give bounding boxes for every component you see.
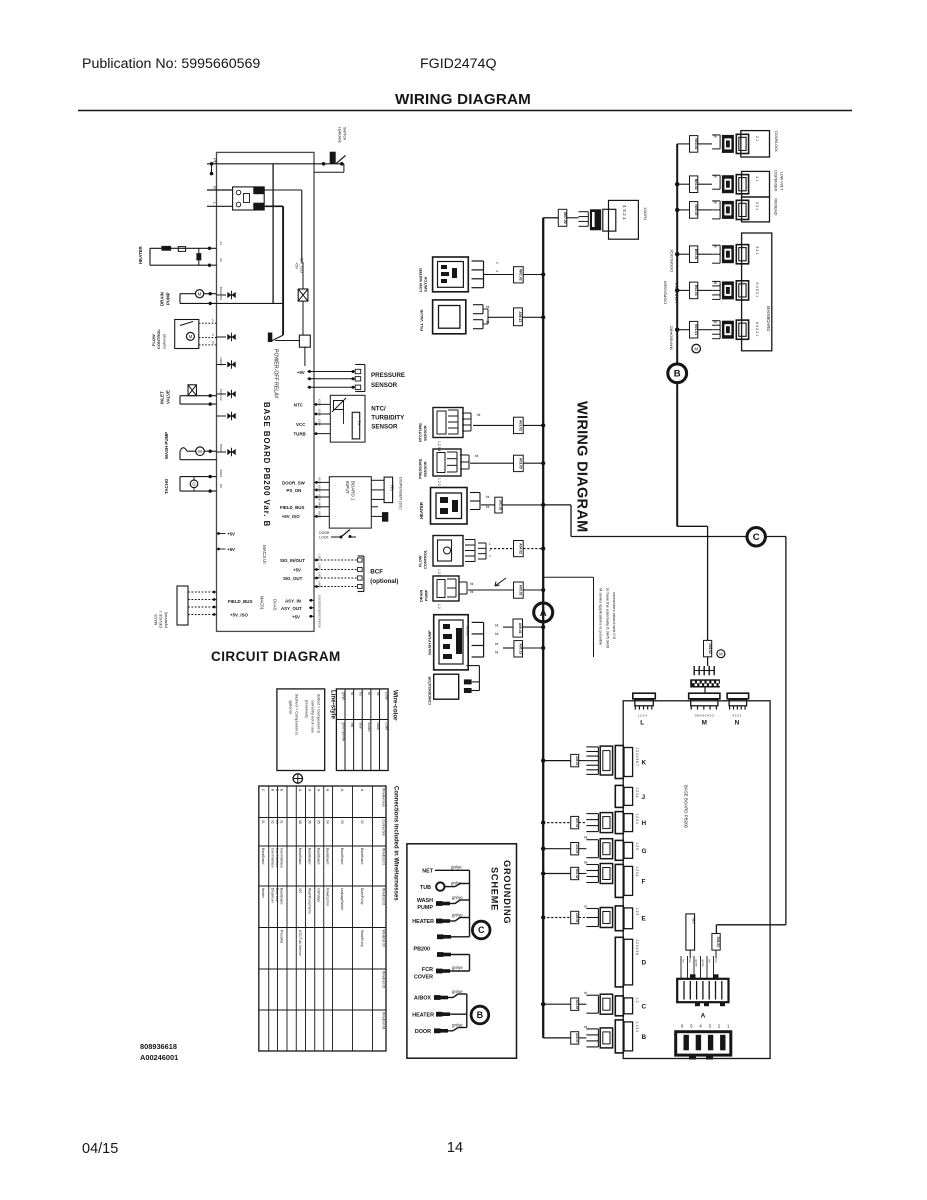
svg-text:H3/06: H3/06 xyxy=(318,494,322,501)
svg-text:HEATER: HEATER xyxy=(412,1013,434,1019)
svg-text:04/15: 04/15 xyxy=(82,1141,118,1157)
svg-text:Wire-color: Wire-color xyxy=(392,690,399,721)
svg-text:bk: bk xyxy=(486,305,490,309)
svg-text:DOOR: DOOR xyxy=(415,1029,431,1035)
svg-text:HEATER: HEATER xyxy=(138,245,143,264)
svg-text:(optional): (optional) xyxy=(163,334,167,349)
svg-text:N03.02: N03.02 xyxy=(694,138,698,149)
svg-text:3: 3 xyxy=(212,340,214,344)
svg-text:MAC51: MAC51 xyxy=(260,596,265,611)
svg-text:K1/0X: K1/0X xyxy=(318,409,322,416)
svg-text:CONTROL: CONTROL xyxy=(423,549,428,569)
svg-text:E: E xyxy=(642,916,647,923)
svg-text:SENSOR: SENSOR xyxy=(424,425,428,441)
svg-text:0 8 0 6 0 4 0 2: 0 8 0 6 0 4 0 2 xyxy=(695,714,715,718)
svg-text:COVER: COVER xyxy=(414,975,433,981)
svg-text:A05.02: A05.02 xyxy=(519,585,523,596)
svg-text:W07.02: W07.02 xyxy=(563,212,567,224)
svg-text:INPUT: INPUT xyxy=(345,481,350,494)
svg-text:F: F xyxy=(642,878,646,885)
svg-text:UserInterface: UserInterface xyxy=(270,848,274,868)
svg-text:H: H xyxy=(642,820,647,827)
svg-text:+5V_ISO: +5V_ISO xyxy=(282,514,301,519)
svg-text:PE: PE xyxy=(213,158,218,164)
svg-text:G: G xyxy=(192,482,195,487)
svg-text:H1/02: H1/02 xyxy=(318,477,322,484)
svg-text:DISPENSER (DC): DISPENSER (DC) xyxy=(399,477,404,510)
svg-text:SIG_IN/OUT: SIG_IN/OUT xyxy=(280,558,305,563)
svg-text:gn/ye: gn/ye xyxy=(701,960,705,967)
svg-text:connectors raised next 0.5: connectors raised next 0.5 xyxy=(612,592,617,640)
svg-text:A05.13: A05.13 xyxy=(518,643,522,654)
svg-text:PUMP: PUMP xyxy=(417,905,433,911)
svg-text:B: B xyxy=(477,1010,484,1020)
svg-text:INLET: INLET xyxy=(160,391,165,404)
svg-text:B01.01: B01.01 xyxy=(694,324,698,335)
svg-text:WireHarness: WireHarness xyxy=(382,788,386,807)
svg-text:D01.02: D01.02 xyxy=(708,643,712,654)
svg-text:WIRING DIAGRAM: WIRING DIAGRAM xyxy=(395,91,531,108)
svg-text:MAC3 UI: MAC3 UI xyxy=(262,545,267,564)
svg-text:MAINBOARD: MAINBOARD xyxy=(669,326,674,350)
svg-text:VALVE: VALVE xyxy=(166,390,171,404)
svg-text:A/BOX: A/BOX xyxy=(414,996,431,1002)
svg-text:BaseBoard: BaseBoard xyxy=(298,848,302,864)
svg-text:B02.01: B02.01 xyxy=(694,285,698,296)
svg-text:K1/02: K1/02 xyxy=(318,399,322,406)
svg-text:Heater: Heater xyxy=(261,888,265,899)
svg-text:D01.03: D01.03 xyxy=(716,937,720,948)
svg-text:WireEnd 02: WireEnd 02 xyxy=(382,888,386,905)
svg-text:WireEnd 06: WireEnd 06 xyxy=(382,1012,386,1029)
svg-text:bu: bu xyxy=(359,692,363,696)
svg-text:PUMP: PUMP xyxy=(166,292,171,305)
svg-text:+5V_ISO: +5V_ISO xyxy=(230,613,249,618)
svg-text:M: M xyxy=(694,346,698,351)
svg-text:1 2 3 4: 1 2 3 4 xyxy=(635,787,639,797)
svg-text:ASY_IN: ASY_IN xyxy=(285,598,301,603)
svg-text:BaseBoard: BaseBoard xyxy=(360,848,364,864)
svg-text:CIRCUIT DIAGRAM: CIRCUIT DIAGRAM xyxy=(211,649,341,664)
svg-text:A: A xyxy=(540,608,547,619)
svg-text:1 2 3 4 5 6: 1 2 3 4 5 6 xyxy=(635,939,639,955)
svg-text:Dispenser: Dispenser xyxy=(270,888,274,904)
svg-text:A02.01: A02.01 xyxy=(575,1033,579,1043)
svg-text:L2/04: L2/04 xyxy=(318,563,322,570)
svg-text:BaseBoard: BaseBoard xyxy=(261,848,265,864)
svg-text:NTC/TURB.: NTC/TURB. xyxy=(419,422,423,442)
svg-text:1 2 3 4: 1 2 3 4 xyxy=(638,714,648,718)
svg-text:DrainPump: DrainPump xyxy=(360,888,364,905)
svg-text:rd: rd xyxy=(584,905,587,909)
svg-text:bk: bk xyxy=(475,454,479,458)
svg-text:blue: blue xyxy=(359,723,363,729)
svg-text:A03.02: A03.02 xyxy=(519,420,523,431)
svg-text:UserInterface: UserInterface xyxy=(275,848,279,868)
svg-text:F1/03: F1/03 xyxy=(219,389,223,397)
svg-text:14: 14 xyxy=(447,1140,463,1156)
svg-text:LOW VOLT: LOW VOLT xyxy=(779,172,783,191)
svg-text:DRAIN: DRAIN xyxy=(160,292,165,306)
svg-text:Color: Color xyxy=(384,723,388,732)
svg-text:BaseBoard: BaseBoard xyxy=(317,848,321,864)
svg-text:red: red xyxy=(350,723,354,728)
svg-text:bk: bk xyxy=(477,413,481,417)
svg-text:MAINBOARD: MAINBOARD xyxy=(766,306,771,331)
svg-text:D2/03: D2/03 xyxy=(219,358,223,366)
svg-text:bk: bk xyxy=(495,651,499,655)
svg-text:bu: bu xyxy=(714,960,718,964)
svg-text:SENSOR: SENSOR xyxy=(371,382,398,389)
svg-text:2 1: 2 1 xyxy=(755,136,759,141)
svg-text:bk: bk xyxy=(470,590,474,594)
svg-text:PUMP: PUMP xyxy=(424,589,429,601)
svg-text:1 2: 1 2 xyxy=(635,998,639,1003)
svg-text:M: M xyxy=(702,720,707,727)
svg-text:N04.02: N04.02 xyxy=(694,179,698,190)
svg-text:+5V: +5V xyxy=(295,262,299,269)
svg-text:A04.02: A04.02 xyxy=(519,543,523,554)
svg-text:gn/ye: gn/ye xyxy=(452,913,463,918)
svg-text:N: N xyxy=(735,720,740,727)
svg-text:DOORLOCK: DOORLOCK xyxy=(669,249,674,272)
svg-text:A03.04: A03.04 xyxy=(575,999,579,1009)
svg-text:K: K xyxy=(642,759,647,766)
svg-text:NTC/Turb Sensor: NTC/Turb Sensor xyxy=(298,930,302,957)
svg-text:DISPENSER: DISPENSER xyxy=(662,281,667,304)
svg-text:2: 2 xyxy=(212,333,214,337)
svg-text:bk: bk xyxy=(376,692,380,696)
svg-text:SWITCH: SWITCH xyxy=(423,276,428,292)
svg-text:A06.13: A06.13 xyxy=(518,311,522,322)
svg-text:N: N xyxy=(213,186,218,189)
svg-text:C: C xyxy=(642,1003,647,1010)
svg-text:bk: bk xyxy=(495,624,499,628)
svg-text:gn/ye: gn/ye xyxy=(452,989,463,994)
svg-text:FlowControl: FlowControl xyxy=(326,888,330,906)
svg-text:UserInterface: UserInterface xyxy=(280,848,284,868)
svg-text:(optional): (optional) xyxy=(370,578,398,585)
svg-text:A2: A2 xyxy=(219,258,223,262)
svg-text:D01.02: D01.02 xyxy=(499,500,503,511)
svg-text:POWER-OFF RELAY: POWER-OFF RELAY xyxy=(273,349,279,399)
svg-text:02: 02 xyxy=(270,820,274,824)
svg-text:BaseBoard: BaseBoard xyxy=(280,888,284,904)
svg-text:bk: bk xyxy=(486,505,490,509)
svg-text:FCR: FCR xyxy=(422,967,433,973)
svg-text:01: 01 xyxy=(261,820,265,824)
svg-text:808936618: 808936618 xyxy=(140,1042,177,1051)
svg-text:SENSOR: SENSOR xyxy=(371,424,398,431)
svg-text:bk: bk xyxy=(495,632,499,636)
svg-text:PB200: PB200 xyxy=(414,947,430,953)
svg-text:M: M xyxy=(719,652,723,657)
svg-text:BaseBoard: BaseBoard xyxy=(340,848,344,864)
svg-text:1 2 3 4: 1 2 3 4 xyxy=(635,866,639,876)
svg-text:TUB: TUB xyxy=(420,885,431,891)
svg-text:gn/ye: gn/ye xyxy=(695,960,699,967)
svg-text:FILL VALVE: FILL VALVE xyxy=(419,309,424,331)
svg-text:M: M xyxy=(198,292,202,297)
svg-text:DOOR: DOOR xyxy=(319,531,330,535)
svg-text:rd: rd xyxy=(584,991,587,995)
svg-text:gn/ye: gn/ye xyxy=(452,1023,463,1028)
svg-text:L: L xyxy=(640,720,644,727)
svg-text:HEATER: HEATER xyxy=(419,502,424,519)
svg-text:T>: T> xyxy=(357,420,362,426)
svg-text:FGID2474Q: FGID2474Q xyxy=(420,56,497,72)
svg-text:bk: bk xyxy=(584,1025,588,1029)
svg-text:TACHO: TACHO xyxy=(164,478,169,494)
svg-text:N04.04: N04.04 xyxy=(575,869,579,879)
svg-text:WashPump: WashPump xyxy=(360,930,364,947)
svg-text:A06.02: A06.02 xyxy=(518,623,522,634)
svg-text:VCC: VCC xyxy=(296,422,306,427)
svg-text:dashed = Component is: dashed = Component is xyxy=(295,694,300,735)
svg-text:NET: NET xyxy=(422,869,433,875)
svg-text:WIRING DIAGRAM: WIRING DIAGRAM xyxy=(574,401,590,532)
svg-text:WireEnd 01: WireEnd 01 xyxy=(382,848,386,865)
svg-text:B05.01: B05.01 xyxy=(694,249,698,260)
svg-text:BaseBoard: BaseBoard xyxy=(326,848,330,864)
svg-text:1 2 3 4: 1 2 3 4 xyxy=(437,441,441,451)
svg-text:DOOR_SW: DOOR_SW xyxy=(282,480,306,485)
svg-text:NTC/: NTC/ xyxy=(371,406,386,413)
svg-text:Door box: Door box xyxy=(275,888,279,902)
svg-text:A07.01: A07.01 xyxy=(575,818,579,828)
svg-text:02: 02 xyxy=(360,820,364,824)
svg-text:BOARD 1: BOARD 1 xyxy=(351,481,356,501)
svg-text:N05.03: N05.03 xyxy=(694,204,698,215)
svg-text:DISPENSER: DISPENSER xyxy=(774,170,778,191)
svg-text:05: 05 xyxy=(317,820,321,824)
svg-text:WASH PUMP: WASH PUMP xyxy=(427,630,432,655)
svg-text:5 4 3 2 1: 5 4 3 2 1 xyxy=(755,322,759,337)
svg-text:Connection: Connection xyxy=(382,820,386,837)
svg-text:E4/S18: E4/S18 xyxy=(318,619,322,628)
svg-text:A03.01: A03.01 xyxy=(575,844,579,854)
svg-text:bk: bk xyxy=(584,836,588,840)
svg-text:H2/04: H2/04 xyxy=(318,485,322,492)
svg-text:green/yellow: green/yellow xyxy=(341,723,345,742)
svg-text:A04.04: A04.04 xyxy=(575,913,579,923)
svg-text:5 4 3 2 1: 5 4 3 2 1 xyxy=(755,282,759,297)
svg-text:K1/04: K1/04 xyxy=(318,419,322,426)
svg-text:HEATER: HEATER xyxy=(412,919,434,925)
svg-text:TURBIDITY: TURBIDITY xyxy=(371,415,405,422)
svg-text:027: 027 xyxy=(298,888,302,894)
svg-text:DOORLOCK: DOORLOCK xyxy=(774,131,778,152)
svg-text:04: 04 xyxy=(326,820,330,824)
svg-text:to have the externally 6.3A/6.: to have the externally 6.3A/6.3A/6 xyxy=(606,588,611,649)
svg-text:+5V: +5V xyxy=(227,532,235,537)
svg-text:2 1: 2 1 xyxy=(755,176,759,181)
svg-text:brown: brown xyxy=(367,723,371,732)
svg-text:Rh: Rh xyxy=(390,485,395,491)
svg-text:BASE BOARD PB200: BASE BOARD PB200 xyxy=(684,785,689,829)
svg-text:+5V: +5V xyxy=(297,370,305,375)
svg-text:4 S 2 1: 4 S 2 1 xyxy=(622,205,627,220)
svg-text:DAAS: DAAS xyxy=(273,599,278,611)
svg-text:NTC: NTC xyxy=(294,403,304,408)
svg-text:W01.02: W01.02 xyxy=(519,269,523,281)
svg-text:3 2 1: 3 2 1 xyxy=(755,202,759,210)
svg-text:bk: bk xyxy=(486,495,490,499)
svg-text:J: J xyxy=(642,794,646,801)
svg-text:SCHEME: SCHEME xyxy=(490,867,500,911)
svg-text:M: M xyxy=(198,449,202,454)
svg-text:InletValve: InletValve xyxy=(317,888,321,902)
svg-text:bk: bk xyxy=(584,861,588,865)
svg-text:RINSEAID: RINSEAID xyxy=(774,199,778,216)
svg-text:LEAKAGE: LEAKAGE xyxy=(338,127,342,144)
svg-text:1 2 3: 1 2 3 xyxy=(437,478,441,486)
svg-text:gn/ye: gn/ye xyxy=(452,965,463,970)
svg-text:currently not in use: currently not in use xyxy=(311,700,316,733)
svg-text:GROUNDING: GROUNDING xyxy=(502,860,512,924)
svg-text:gn/ye: gn/ye xyxy=(452,895,463,900)
svg-text:1S/2R1: 1S/2R1 xyxy=(643,207,648,221)
svg-text:WireEnd 03: WireEnd 03 xyxy=(382,930,386,947)
svg-text:B2: B2 xyxy=(219,296,223,300)
svg-text:03: 03 xyxy=(340,820,344,824)
svg-text:WashPumpTacho: WashPumpTacho xyxy=(307,888,311,914)
svg-text:A1: A1 xyxy=(219,241,223,245)
svg-text:H4/08: H4/08 xyxy=(318,502,322,509)
svg-text:BASE BOARD PB200 Var. B: BASE BOARD PB200 Var. B xyxy=(262,402,271,527)
svg-text:H5/10: H5/10 xyxy=(318,511,322,518)
svg-text:B: B xyxy=(674,369,681,380)
svg-text:4 3 2 1: 4 3 2 1 xyxy=(732,714,742,718)
svg-text:08: 08 xyxy=(298,820,302,824)
svg-text:+5V: +5V xyxy=(293,568,301,573)
svg-text:MACS: MACS xyxy=(154,614,158,625)
svg-text:LeakageSwitch: LeakageSwitch xyxy=(340,888,344,911)
svg-text:G: G xyxy=(642,848,647,855)
svg-text:01: 01 xyxy=(280,820,284,824)
svg-text:B: B xyxy=(642,1034,647,1041)
svg-text:+5V: +5V xyxy=(292,614,300,619)
svg-text:3 2 1: 3 2 1 xyxy=(755,246,759,254)
svg-text:(optional): (optional) xyxy=(164,611,168,628)
svg-text:A: A xyxy=(701,1013,706,1020)
svg-text:M: M xyxy=(189,334,193,339)
svg-text:M series applications is possi: M series applications is possible xyxy=(599,588,604,646)
svg-text:Code: Code xyxy=(384,692,388,700)
svg-text:LOCK: LOCK xyxy=(319,535,329,539)
svg-text:gn/ye: gn/ye xyxy=(451,864,462,869)
svg-text:BCF: BCF xyxy=(370,569,383,576)
svg-text:Connections included in WireHa: Connections included in WireHarnesses xyxy=(393,786,399,901)
svg-text:TURB: TURB xyxy=(294,432,306,437)
svg-text:D: D xyxy=(642,960,647,967)
svg-text:optional: optional xyxy=(289,700,294,714)
svg-text:+5V: +5V xyxy=(227,547,235,552)
svg-text:1 2 3: 1 2 3 xyxy=(635,842,639,849)
svg-text:B1/02: B1/02 xyxy=(219,287,223,295)
svg-text:1 2 3 4 5 6 7: 1 2 3 4 5 6 7 xyxy=(635,748,639,766)
svg-text:BaseBoard: BaseBoard xyxy=(307,848,311,864)
svg-text:rd: rd xyxy=(350,692,354,695)
svg-text:CONDENSATOR: CONDENSATOR xyxy=(428,676,432,705)
svg-text:NET: NET xyxy=(691,917,696,926)
svg-text:1 2 3: 1 2 3 xyxy=(635,908,639,915)
svg-text:WASH PUMP: WASH PUMP xyxy=(164,432,169,459)
svg-text:C: C xyxy=(478,925,485,935)
svg-text:4: 4 xyxy=(495,270,499,272)
svg-text:06: 06 xyxy=(307,820,311,824)
svg-text:03: 03 xyxy=(275,820,279,824)
svg-text:DEVICE 1: DEVICE 1 xyxy=(159,611,163,628)
svg-text:Line-style: Line-style xyxy=(330,690,337,719)
svg-text:bk: bk xyxy=(470,582,474,586)
svg-text:F2: F2 xyxy=(219,397,223,401)
svg-text:SWITCH: SWITCH xyxy=(343,127,347,141)
svg-text:PressAid: PressAid xyxy=(280,930,284,943)
svg-text:gn/ye: gn/ye xyxy=(341,692,345,700)
svg-text:PS_ON: PS_ON xyxy=(286,488,301,493)
svg-text:1 2 3 4: 1 2 3 4 xyxy=(635,1022,639,1032)
svg-text:C: C xyxy=(753,532,760,543)
svg-text:A03.05: A03.05 xyxy=(519,458,523,469)
svg-text:A06.01: A06.01 xyxy=(575,756,579,766)
svg-text:Publication No: 5995660569: Publication No: 5995660569 xyxy=(82,56,260,72)
svg-text:CONTROL: CONTROL xyxy=(156,329,161,349)
svg-text:1 2 3 4: 1 2 3 4 xyxy=(635,814,639,824)
svg-text:PRESSURE: PRESSURE xyxy=(419,458,423,479)
svg-text:B4: B4 xyxy=(219,484,223,488)
svg-text:FIELD_BUS: FIELD_BUS xyxy=(228,599,252,604)
svg-text:gn/ye: gn/ye xyxy=(451,881,462,886)
svg-text:SENSOR: SENSOR xyxy=(424,461,428,477)
svg-text:dotted = Component is: dotted = Component is xyxy=(317,694,322,733)
svg-text:ASY_OUT: ASY_OUT xyxy=(281,606,302,611)
svg-text:B25001: B25001 xyxy=(466,626,470,637)
svg-text:bk: bk xyxy=(495,642,499,646)
svg-text:black: black xyxy=(376,723,380,731)
svg-text:SIG_OUT: SIG_OUT xyxy=(283,576,303,581)
svg-text:bn: bn xyxy=(682,960,686,964)
svg-text:1: 1 xyxy=(212,319,214,323)
svg-text:PRESSURE: PRESSURE xyxy=(371,372,405,379)
svg-text:(reserved): (reserved) xyxy=(305,700,310,718)
svg-text:B5/03: B5/03 xyxy=(219,444,223,452)
svg-text:A00246001: A00246001 xyxy=(140,1053,178,1062)
svg-text:WASH: WASH xyxy=(417,898,433,904)
svg-text:WireEnd 05: WireEnd 05 xyxy=(382,971,386,988)
svg-text:FIELD_BUS: FIELD_BUS xyxy=(280,505,304,510)
svg-text:1 2: 1 2 xyxy=(437,604,441,609)
svg-text:2: 2 xyxy=(495,262,499,264)
svg-text:B3/01: B3/01 xyxy=(219,470,223,478)
